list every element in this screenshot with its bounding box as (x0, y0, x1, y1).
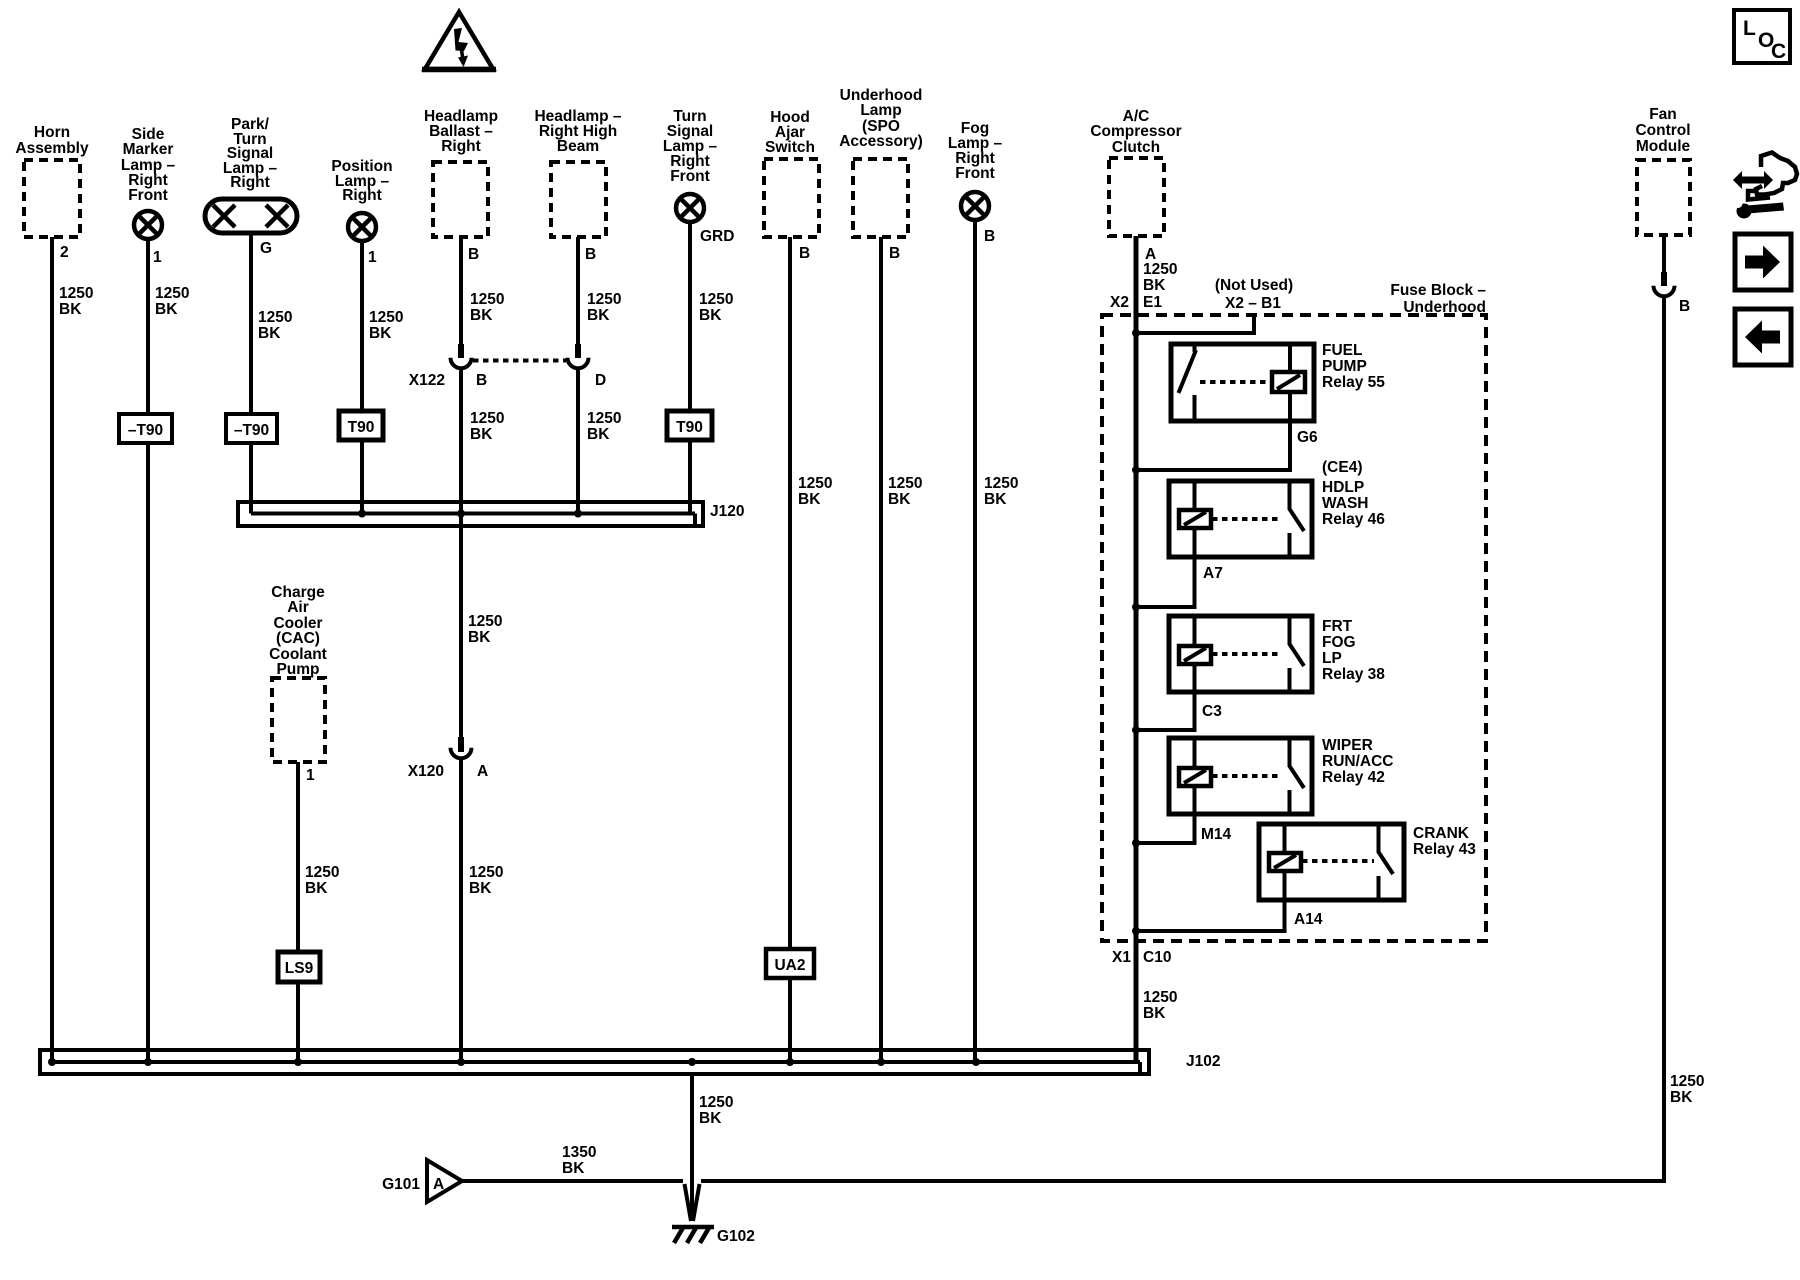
ground wire label (699, 1094, 733, 1127)
wire label below J120 (468, 613, 502, 646)
svg-text:BK: BK (59, 301, 82, 318)
A/C compressor clutch label (1090, 108, 1181, 156)
high beam wire label upper (587, 291, 621, 324)
svg-text:Clutch: Clutch (1112, 139, 1160, 156)
wiper output wire M14 (1136, 814, 1195, 843)
X122 male pin B (458, 344, 464, 358)
turn signal lamp symbol (676, 194, 704, 222)
X122 male pin D (575, 344, 581, 358)
svg-text:RUN/ACC: RUN/ACC (1322, 753, 1393, 770)
svg-text:BK: BK (798, 491, 821, 508)
svg-text:Relay 55: Relay 55 (1322, 374, 1385, 391)
svg-text:X1: X1 (1112, 949, 1131, 966)
svg-text:BK: BK (1670, 1089, 1693, 1106)
junction dot A14 (1132, 927, 1140, 935)
svg-text:FOG: FOG (1322, 634, 1356, 651)
svg-text:T90: T90 (676, 419, 703, 436)
svg-text:1250: 1250 (470, 410, 504, 427)
svg-text:Fuse Block –: Fuse Block – (1390, 282, 1486, 299)
svg-text:BK: BK (587, 426, 610, 443)
high beam wire 1250 BK lower (576, 370, 580, 514)
svg-text:WASH: WASH (1322, 495, 1369, 512)
svg-text:BK: BK (155, 301, 178, 318)
svg-text:1250: 1250 (1143, 261, 1177, 278)
svg-text:Front: Front (670, 168, 710, 185)
svg-text:A: A (433, 1176, 444, 1193)
park/turn double lamp symbol (205, 199, 297, 233)
side marker lamp label (121, 126, 176, 204)
svg-text:Pump: Pump (276, 661, 319, 678)
svg-text:1250: 1250 (155, 285, 189, 302)
A/C wire 1250 BK / fuse block bus (1134, 236, 1139, 1062)
svg-text:1250: 1250 (699, 1094, 733, 1111)
hood ajar wire label (798, 475, 832, 508)
icon: left arrow box (1735, 309, 1791, 365)
svg-text:1250: 1250 (369, 309, 403, 326)
headlamp ballast label (424, 108, 498, 155)
svg-text:WIPER: WIPER (1322, 737, 1373, 754)
X120 connector A (451, 748, 472, 759)
position lamp label (331, 158, 392, 204)
fuse block output wire label (1143, 989, 1177, 1022)
svg-text:BK: BK (468, 629, 491, 646)
svg-text:1250: 1250 (1143, 989, 1177, 1006)
splice pack J120 (238, 502, 703, 526)
svg-text:(Not Used): (Not Used) (1215, 277, 1293, 294)
turn signal wire 1250 BK (688, 224, 692, 514)
svg-text:C10: C10 (1143, 949, 1171, 966)
fan control module label (1635, 106, 1690, 155)
svg-text:Front: Front (128, 187, 168, 204)
svg-text:1250: 1250 (984, 475, 1018, 492)
svg-text:UA2: UA2 (774, 957, 805, 974)
svg-text:E1: E1 (1143, 294, 1162, 311)
svg-text:B: B (585, 246, 596, 263)
svg-text:(CAC): (CAC) (276, 630, 320, 647)
svg-text:BK: BK (369, 325, 392, 342)
svg-text:1250: 1250 (258, 309, 292, 326)
frt fog relay label (1322, 618, 1385, 683)
svg-text:A: A (477, 763, 488, 780)
svg-text:BK: BK (984, 491, 1007, 508)
fuel pump relay 55 (1171, 344, 1314, 421)
fan connector B (1654, 286, 1675, 297)
svg-text:BK: BK (469, 880, 492, 897)
fan wire 1250 BK (1662, 298, 1666, 1181)
center wire below X120 (459, 760, 463, 1062)
turn signal wire label (699, 291, 733, 324)
ballast wire 1250 BK lower (459, 370, 463, 748)
svg-text:BK: BK (1143, 1005, 1166, 1022)
svg-text:Module: Module (1636, 138, 1691, 155)
side marker wire label (155, 285, 189, 318)
svg-text:J102: J102 (1186, 1053, 1220, 1070)
underhood wire label (888, 475, 922, 508)
svg-text:1: 1 (368, 249, 377, 266)
junction dot position at J120 (358, 510, 366, 518)
headlamp ballast box (433, 162, 488, 237)
svg-text:B: B (468, 246, 479, 263)
charge air cooler pump label (269, 584, 327, 678)
svg-text:GRD: GRD (700, 228, 734, 245)
svg-text:G: G (260, 240, 272, 257)
svg-text:1250: 1250 (699, 291, 733, 308)
svg-text:BK: BK (470, 426, 493, 443)
junction dot ballast at J120 (457, 510, 465, 518)
hood ajar switch box (764, 159, 819, 237)
svg-text:1250: 1250 (470, 291, 504, 308)
svg-text:Right: Right (441, 138, 481, 155)
junction dot side marker at J102 (144, 1058, 152, 1066)
fan connector male pin (1661, 272, 1667, 286)
svg-text:B: B (799, 245, 810, 262)
svg-text:X122: X122 (409, 372, 445, 389)
svg-text:Horn: Horn (34, 124, 70, 141)
fog lamp symbol (961, 192, 989, 220)
junction dot high beam at J120 (574, 510, 582, 518)
icon: right arrow box (1735, 234, 1791, 290)
position wire 1250 BK (360, 242, 364, 514)
fuse block border (1102, 315, 1486, 941)
hdlp wash output wire A7 (1136, 557, 1195, 607)
turn signal T90 box (667, 411, 712, 440)
svg-text:G102: G102 (717, 1228, 755, 1245)
frt fog lp relay 38 (1169, 616, 1312, 692)
icon: double arrow with hook and wrench (1733, 153, 1797, 219)
svg-text:LP: LP (1322, 650, 1342, 667)
connector labels X1 C10 (1112, 949, 1171, 966)
high beam wire label lower (587, 410, 621, 443)
svg-text:1250: 1250 (1670, 1073, 1704, 1090)
G102 chassis ground symbol (672, 1226, 714, 1243)
svg-text:T90: T90 (348, 419, 375, 436)
svg-text:Beam: Beam (557, 138, 599, 155)
center wire label below X120 (469, 864, 503, 897)
junction dot ground wire at J102 (688, 1058, 696, 1066)
svg-text:G101: G101 (382, 1176, 420, 1193)
svg-text:BK: BK (1143, 277, 1166, 294)
side marker T90 box (119, 414, 172, 443)
svg-text:BK: BK (888, 491, 911, 508)
CAC wire 1250 BK (296, 762, 300, 1062)
position T90 box (339, 411, 383, 440)
junction dot A7 (1132, 603, 1140, 611)
svg-text:1250: 1250 (798, 475, 832, 492)
fog lamp label (948, 120, 1003, 182)
fan wire upper (1662, 235, 1666, 286)
svg-text:Air: Air (287, 599, 309, 616)
X122 connector B (451, 358, 472, 369)
high beam wire 1250 BK upper (576, 237, 580, 358)
svg-text:A7: A7 (1203, 565, 1223, 582)
svg-text:Relay 38: Relay 38 (1322, 666, 1385, 683)
svg-text:1: 1 (306, 767, 315, 784)
svg-text:Front: Front (955, 165, 995, 182)
horn assembly box (24, 160, 80, 237)
svg-text:B: B (889, 245, 900, 262)
crank relay 43 (1259, 824, 1404, 900)
X120 male pin (458, 737, 464, 752)
svg-text:M14: M14 (1201, 826, 1232, 843)
underhood lamp box (853, 159, 908, 237)
crank output wire A14 (1136, 900, 1285, 931)
underhood lamp label (839, 87, 923, 150)
CAC LS9 box (278, 952, 320, 982)
underhood wire 1250 BK (879, 237, 883, 1062)
junction dot underhood at J102 (877, 1058, 885, 1066)
svg-text:2: 2 (60, 244, 69, 261)
svg-text:1250: 1250 (305, 864, 339, 881)
svg-text:B: B (1679, 298, 1690, 315)
hdlp wash relay label (1322, 479, 1385, 528)
junction dot fog at J102 (972, 1058, 980, 1066)
svg-text:LS9: LS9 (285, 960, 314, 977)
svg-text:Right: Right (230, 174, 270, 191)
side marker wire 1250 BK (146, 240, 150, 1062)
svg-text:Marker: Marker (123, 141, 174, 158)
park/turn signal lamp label (223, 116, 278, 191)
junction dot M14 (1132, 839, 1140, 847)
svg-text:Lamp: Lamp (860, 102, 901, 119)
X2-B1 stub wire (1136, 316, 1254, 333)
svg-text:1: 1 (153, 249, 162, 266)
svg-text:BK: BK (562, 1160, 585, 1177)
svg-text:1250: 1250 (59, 285, 93, 302)
svg-text:(CE4): (CE4) (1322, 459, 1362, 476)
svg-text:Relay 42: Relay 42 (1322, 769, 1385, 786)
not used connector label (1215, 277, 1293, 312)
svg-text:B: B (984, 228, 995, 245)
svg-text:1250: 1250 (468, 613, 502, 630)
horn assembly label (15, 124, 89, 157)
high beam box (551, 162, 606, 237)
ballast wire label upper (470, 291, 504, 324)
svg-text:Accessory): Accessory) (839, 133, 923, 150)
svg-text:Relay 46: Relay 46 (1322, 511, 1385, 528)
svg-text:CRANK: CRANK (1413, 825, 1470, 842)
hood ajar wire 1250 BK (788, 237, 792, 1062)
warning triangle with lightning bolt (422, 12, 496, 70)
svg-text:Switch: Switch (765, 139, 815, 156)
A/C compressor clutch box (1109, 158, 1164, 236)
ballast wire 1250 BK upper (459, 237, 463, 358)
svg-text:BK: BK (699, 307, 722, 324)
svg-text:G6: G6 (1297, 429, 1318, 446)
park/turn wire label (258, 309, 292, 342)
svg-text:J120: J120 (710, 503, 744, 520)
svg-text:C: C (1771, 40, 1786, 63)
fuel pump output wire G6 (1136, 421, 1290, 470)
CAC wire label (305, 864, 339, 897)
svg-text:BK: BK (258, 325, 281, 342)
fog wire label (984, 475, 1018, 508)
frt fog output wire C3 (1136, 692, 1195, 730)
svg-text:FUEL: FUEL (1322, 342, 1362, 359)
hdlp wash relay 46 (1169, 481, 1312, 557)
junction dot C3 (1132, 726, 1140, 734)
svg-text:BK: BK (699, 1110, 722, 1127)
ground bus J102 (40, 1050, 1149, 1074)
ballast wire label lower (470, 410, 504, 443)
G101 ground triangle A (427, 1160, 462, 1202)
wiper run/acc relay 42 (1169, 738, 1312, 814)
svg-text:D: D (595, 372, 606, 389)
turn signal lamp label (663, 108, 718, 185)
svg-text:Control: Control (1635, 122, 1690, 139)
connector labels X2 E1 (1110, 294, 1162, 311)
svg-text:BK: BK (587, 307, 610, 324)
svg-text:Compressor: Compressor (1090, 123, 1181, 140)
junction dot horn at J102 (48, 1058, 56, 1066)
1350 BK wire label (562, 1144, 596, 1177)
svg-text:1350: 1350 (562, 1144, 596, 1161)
junction dot CAC at J102 (294, 1058, 302, 1066)
ground wire 1250 BK below J102 (690, 1074, 694, 1214)
hood ajar switch label (765, 109, 815, 156)
horn wire label (59, 285, 93, 318)
svg-text:FRT: FRT (1322, 618, 1353, 635)
svg-text:X2 – B1: X2 – B1 (1225, 295, 1281, 312)
svg-text:A14: A14 (1294, 911, 1323, 928)
junction dot center wire at J102 (457, 1058, 465, 1066)
position wire label (369, 309, 403, 342)
X122 jumper dashed wire (473, 359, 566, 363)
svg-text:X2: X2 (1110, 294, 1129, 311)
svg-text:X120: X120 (408, 763, 444, 780)
LOC legend box (1734, 10, 1790, 63)
park/turn wire 1250 BK (249, 233, 253, 514)
svg-text:–T90: –T90 (234, 422, 269, 439)
junction dot G6 (1132, 466, 1140, 474)
svg-text:1250: 1250 (587, 410, 621, 427)
hood ajar UA2 box (766, 949, 814, 978)
svg-text:Fan: Fan (1649, 106, 1677, 123)
side marker lamp symbol (134, 211, 162, 239)
X122 connector D (568, 358, 589, 369)
svg-text:C3: C3 (1202, 703, 1222, 720)
fuse block underhood label (1390, 282, 1486, 316)
svg-text:Assembly: Assembly (15, 140, 89, 157)
A/C wire label (1143, 261, 1177, 294)
svg-text:Relay 43: Relay 43 (1413, 841, 1476, 858)
junction dot X2-B1 (1132, 329, 1140, 337)
park/turn T90 box (226, 414, 277, 443)
position lamp symbol (348, 213, 376, 241)
fan control module box (1637, 160, 1690, 235)
svg-text:Right: Right (342, 187, 382, 204)
horn wire 1250 BK (50, 237, 54, 1062)
svg-text:1250: 1250 (587, 291, 621, 308)
fog lamp wire 1250 BK (973, 221, 977, 1062)
svg-text:1250: 1250 (469, 864, 503, 881)
ground arrow into G102 (685, 1184, 700, 1221)
junction dot hood ajar at J102 (786, 1058, 794, 1066)
svg-text:B: B (476, 372, 487, 389)
fuel pump relay label (1322, 342, 1385, 391)
svg-text:BK: BK (305, 880, 328, 897)
svg-text:HDLP: HDLP (1322, 479, 1364, 496)
svg-text:–T90: –T90 (128, 422, 163, 439)
fan wire label (1670, 1073, 1704, 1106)
headlamp high beam label (534, 108, 621, 155)
ground horizontal wire 1350 BK (462, 1179, 1666, 1183)
svg-text:1250: 1250 (888, 475, 922, 492)
svg-text:BK: BK (470, 307, 493, 324)
svg-text:L: L (1743, 17, 1756, 40)
svg-text:PUMP: PUMP (1322, 358, 1367, 375)
CAC pump box (272, 678, 325, 762)
wiper relay label (1322, 737, 1393, 786)
crank relay label (1413, 825, 1476, 858)
